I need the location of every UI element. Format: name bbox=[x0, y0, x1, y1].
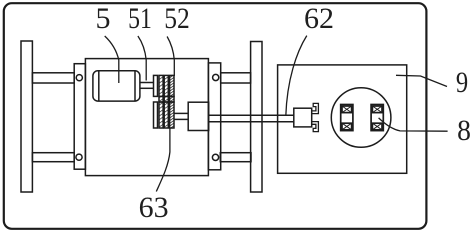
leader 9 bbox=[396, 75, 447, 86]
box 9 bbox=[278, 65, 407, 173]
leader 52 bbox=[167, 37, 174, 77]
belt bbox=[159, 96, 174, 102]
label 5 bbox=[73, 4, 133, 34]
left upper bar bbox=[32, 73, 74, 83]
pulley 63 lower stack bbox=[154, 102, 175, 128]
right upper bar bbox=[221, 73, 251, 83]
motor M (5) bbox=[93, 71, 140, 101]
leader 51 bbox=[138, 36, 146, 81]
bolt hole bottom-left bbox=[76, 154, 82, 160]
shaft 62 bbox=[209, 114, 294, 116]
bearing right (8) bbox=[371, 105, 383, 131]
motor shaft bbox=[140, 82, 154, 84]
right flange strip bbox=[208, 63, 220, 170]
label 52 bbox=[152, 4, 203, 34]
label 51 bbox=[116, 4, 163, 34]
coupler top claw bbox=[312, 103, 319, 113]
coupler bottom claw bbox=[312, 122, 319, 132]
left flange strip bbox=[74, 64, 85, 170]
left rail bbox=[21, 41, 32, 192]
label 9 bbox=[437, 68, 474, 98]
motor right end cap bbox=[134, 71, 136, 101]
leader 63 bbox=[156, 129, 170, 192]
leader 62 bbox=[286, 36, 307, 116]
coupler block bbox=[294, 108, 312, 127]
motor left end cap bbox=[98, 71, 100, 101]
right rail bbox=[251, 42, 262, 193]
left lower bar bbox=[32, 153, 74, 162]
leader 8 bbox=[379, 118, 448, 131]
right lower bar bbox=[220, 153, 251, 162]
bolt hole bottom-right bbox=[212, 154, 218, 160]
bearing left (8) bbox=[341, 105, 353, 131]
pulley 51 upper stack bbox=[154, 75, 175, 96]
label 62 bbox=[289, 4, 349, 34]
leader 5 bbox=[105, 36, 119, 83]
lower shaft to bearing box bbox=[174, 112, 188, 114]
machine box bbox=[85, 59, 208, 176]
label 63 bbox=[124, 193, 184, 223]
bolt hole top-left bbox=[76, 75, 82, 81]
bolt hole top-right bbox=[213, 74, 219, 80]
bearing box bbox=[188, 102, 209, 130]
label 8 bbox=[436, 116, 474, 146]
drum circle bbox=[331, 88, 391, 148]
